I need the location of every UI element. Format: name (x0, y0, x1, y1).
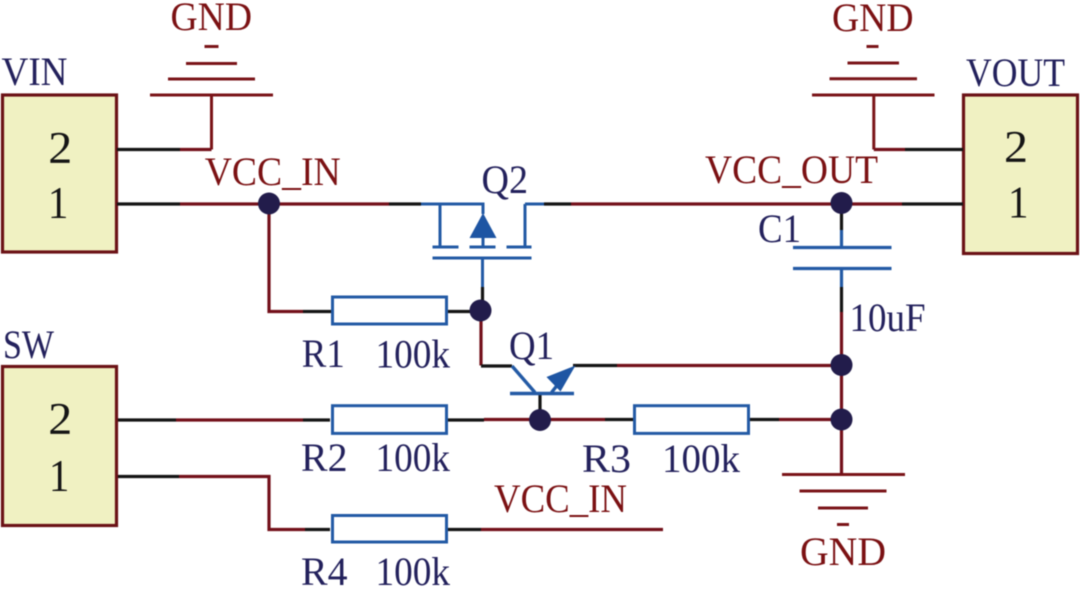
ground GND top-right (812, 47, 935, 150)
svg-text:R1: R1 (302, 331, 345, 376)
black pin segments (117, 150, 963, 530)
svg-text:1: 1 (49, 450, 70, 501)
pin R4 left (305, 528, 330, 531)
svg-text:1: 1 (48, 177, 69, 228)
wire Q2 drain to VOUT (571, 202, 902, 205)
wire D2 down to Q1 collector (479, 311, 482, 366)
svg-text:VCC_OUT: VCC_OUT (705, 147, 878, 192)
pin Q1 base (538, 395, 541, 410)
wire VCC_IN rail (180, 202, 389, 205)
pin R2 right (446, 418, 484, 421)
pin Q1 emitter (573, 364, 617, 367)
wire C1 column (840, 312, 843, 475)
svg-text:100k: 100k (376, 549, 451, 594)
svg-text:VOUT: VOUT (966, 50, 1065, 95)
capacitor C1 (793, 230, 892, 287)
svg-text:SW: SW (3, 322, 54, 367)
resistor R2 (333, 406, 447, 434)
svg-text:100k: 100k (376, 332, 451, 377)
wire VIN pin2 to GND stem (180, 148, 212, 151)
pin VIN 1 (117, 202, 180, 205)
svg-text:C1: C1 (758, 206, 801, 251)
wire maroon segments (176, 150, 905, 530)
wire D1 down to R1 (269, 204, 303, 312)
svg-text:10uF: 10uF (850, 295, 926, 340)
pin Q2 gate (481, 287, 484, 303)
junction dot D1 VCC_IN (258, 193, 280, 215)
pin C1 bottom (840, 287, 843, 312)
svg-text:Q2: Q2 (482, 157, 529, 202)
svg-text:VCC_IN: VCC_IN (494, 476, 627, 521)
ground GND top-left (150, 47, 273, 150)
svg-text:100k: 100k (376, 435, 451, 480)
pin Q1 collector (481, 364, 512, 367)
pin C1 top (840, 204, 843, 230)
resistor R1 (333, 297, 447, 324)
junction dot D5 Q1 emitter/C1 (831, 354, 853, 376)
wire SW pin1 to R4 (179, 477, 305, 530)
connector VIN (3, 95, 117, 252)
svg-text:VCC_IN: VCC_IN (205, 149, 341, 194)
connector VOUT (964, 95, 1078, 254)
wire R2 to R3 through D4 (484, 418, 605, 421)
resistor R4 (333, 516, 447, 543)
pin R1 right (448, 310, 470, 313)
pin R2 left (303, 418, 330, 421)
pin VOUT 1 (902, 202, 963, 205)
svg-text:R3: R3 (582, 436, 631, 481)
ground GND bottom (782, 475, 905, 525)
pin SW 1 (118, 475, 179, 478)
svg-text:GND: GND (832, 0, 914, 40)
junction dot D3 VCC_OUT (831, 192, 853, 214)
pin R3 right (750, 418, 779, 421)
svg-text:VIN: VIN (2, 49, 68, 94)
svg-text:R2: R2 (301, 435, 348, 480)
pin R4 right (446, 528, 481, 531)
pin R1 left (303, 310, 331, 313)
transistor Q2 (PMOS) (421, 204, 544, 287)
pin VOUT 2 (905, 148, 963, 151)
pin VIN 2 (117, 148, 180, 151)
svg-text:R4: R4 (301, 549, 348, 594)
transistor Q1 (NPN) (512, 366, 566, 393)
svg-text:GND: GND (800, 529, 886, 574)
wire R4 right to VCC_IN stub (481, 528, 663, 531)
svg-text:GND: GND (171, 0, 253, 39)
svg-text:1: 1 (1008, 177, 1029, 228)
pin Q2 drain (544, 202, 571, 205)
svg-text:2: 2 (48, 393, 72, 444)
svg-text:Q1: Q1 (509, 323, 554, 368)
wire R3 right to D6 (779, 418, 842, 421)
svg-text:2: 2 (48, 122, 72, 173)
svg-text:2: 2 (1004, 121, 1028, 172)
resistor R3 (635, 406, 749, 434)
junction dot D6 R3/GND (831, 409, 853, 431)
pin Q2 source (389, 202, 421, 205)
svg-text:100k: 100k (662, 436, 740, 481)
connector SW (3, 367, 117, 526)
pin SW 2 (118, 418, 176, 421)
wire GND TR to VOUT pin2 (874, 148, 905, 151)
wire SW pin2 to R2 (176, 418, 303, 421)
junction dot D2 R1/Q2 gate (470, 300, 492, 322)
wire Q1 emitter row (617, 364, 842, 367)
pin R3 left (605, 418, 633, 421)
junction dot D4 Q1 base (529, 409, 551, 431)
